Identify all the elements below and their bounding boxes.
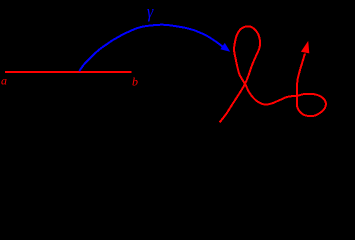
map arrow gamma (blue arc): [79, 25, 224, 71]
svg-text:b: b: [132, 75, 138, 89]
arrowhead of red curve: [301, 41, 309, 54]
image curve (red squiggle): [220, 26, 326, 122]
interval segment [a,b]: [5, 71, 132, 73]
svg-text:a: a: [1, 74, 7, 88]
arrowhead of gamma arrow: [220, 43, 230, 52]
